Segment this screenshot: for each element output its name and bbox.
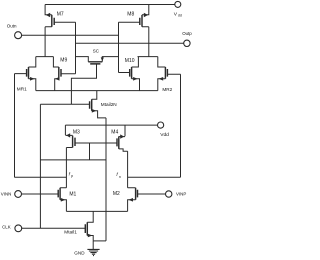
power Vdd terminal (1st stage) [158,122,164,128]
transistor M2 [128,188,166,212]
svg-text:M9: M9 [60,58,67,64]
svg-text:Mtail1: Mtail1 [64,230,77,235]
transistor M7 [45,5,75,27]
wire MR1 gate rail to fp [14,74,16,178]
svg-text:VINN: VINN [1,191,12,196]
wire Vdd rail (1st stage) [65,124,157,126]
svg-text:MR1: MR1 [17,87,27,92]
transistor Mtail2N [92,111,106,118]
transistor M9 [53,57,75,91]
svg-text:Outp: Outp [182,31,192,36]
wire fp to MR1 gate [14,176,66,178]
transistor MR2 [158,57,181,91]
wire input pair source rail [66,210,127,212]
transistor Mtail1 [22,228,93,241]
wire long vertical to ground [105,118,107,241]
svg-text:M4: M4 [111,130,118,136]
wire Mtail1 drain riser [87,211,93,222]
wire ground link [93,240,106,242]
wire ground drop [92,241,94,249]
wire left cross top bar [36,56,54,58]
svg-text:VINP: VINP [176,192,186,197]
svg-text:M7: M7 [57,12,64,18]
wire M7/M9 gate vertical [75,22,77,74]
wire fp riser [65,148,67,188]
svg-text:GND: GND [74,250,85,255]
wire MR2 gate rail to fn [180,74,182,177]
svg-text:MR2: MR2 [162,87,172,92]
transistor M8 [119,5,149,27]
wire M7 drain to Outn node [44,27,46,57]
transistor M1 [22,188,67,212]
node VINP [166,191,172,197]
svg-text:Mtail2N: Mtail2N [101,102,117,107]
svg-text:M1: M1 [69,192,76,198]
wire M8 drain to Outp node [148,27,150,57]
wire SC gate to CLK net [71,64,96,104]
wire fn riser [127,151,129,188]
wire Mtail2N drain riser [92,91,97,100]
wire Outn to M8 gate [22,34,119,36]
wire Vdd rail (2nd stage) [45,4,175,6]
svg-text:M3: M3 [73,130,80,136]
svg-text:SC: SC [93,48,100,53]
transistor M3 [65,125,72,147]
wire M3/M4 gates to CLK net [40,143,106,160]
wire CLK net to tail2 gate [40,103,89,105]
wire right cross top bar [138,56,158,58]
transistor M4 [119,125,128,151]
svg-text:M2: M2 [113,191,120,197]
svg-text:n: n [119,175,121,179]
svg-text:p: p [71,174,73,178]
wire M3/M4 gate line [75,142,117,144]
svg-text:CLK: CLK [2,225,11,230]
wire CLK riser [39,104,41,228]
svg-text:Vdd: Vdd [160,132,169,138]
wire M8/M10 gate vertical [118,22,120,72]
svg-text:Outn: Outn [7,24,17,29]
svg-text:dd: dd [178,14,182,18]
transistor M10 [119,57,140,91]
wire latch tail rail [36,90,158,92]
wire fn to MR2 gate [128,176,181,178]
power Vdd terminal top right [175,1,181,7]
svg-text:M8: M8 [127,11,134,17]
svg-text:M10: M10 [125,58,135,64]
wire Outp to M7 gate [76,42,184,44]
transistor MR1 [15,57,36,91]
ground [87,249,99,255]
